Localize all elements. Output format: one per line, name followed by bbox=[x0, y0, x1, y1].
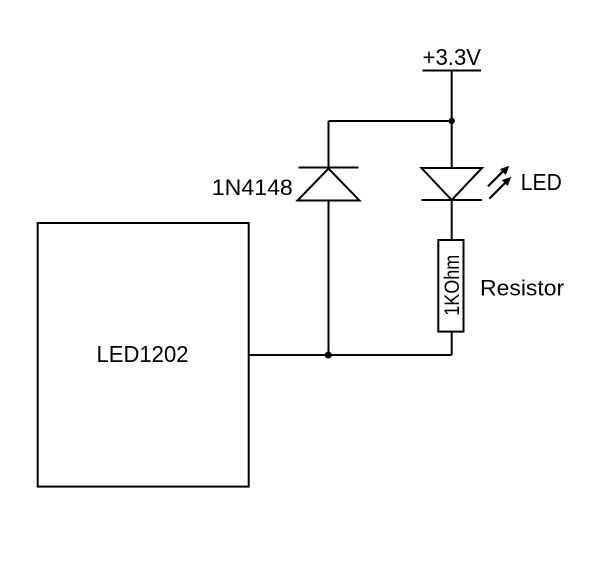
LED triangle bbox=[422, 168, 483, 200]
svg-text:LED1202: LED1202 bbox=[97, 341, 189, 367]
wire LED cathode to resistor R1 bbox=[451, 200, 453, 240]
LED light arrow upper bbox=[488, 167, 509, 187]
svg-text:+3.3V: +3.3V bbox=[423, 44, 482, 70]
wire down to diode D1 cathode bbox=[328, 121, 330, 168]
wire resistor R1 to bottom net bbox=[451, 332, 453, 355]
LED light arrow lower bbox=[489, 178, 510, 199]
power rail bar +3.3V bbox=[423, 70, 482, 72]
wire from diode anode down to bottom net bbox=[328, 201, 330, 356]
node junction dot on bottom net bbox=[325, 352, 332, 359]
LED cathode bar bbox=[422, 199, 483, 201]
wire from +3.3V rail down to LED anode bbox=[451, 71, 453, 169]
svg-text:Resistor: Resistor bbox=[480, 275, 564, 300]
svg-text:LED: LED bbox=[521, 169, 562, 195]
IC LED1202 box bbox=[38, 223, 249, 487]
diode 1N4148 cathode bar bbox=[299, 167, 359, 169]
resistor R1 body bbox=[438, 240, 463, 332]
diode 1N4148 triangle bbox=[298, 169, 360, 201]
bottom net wire from LED1202 to resistor branch bbox=[249, 354, 452, 356]
svg-text:1N4148: 1N4148 bbox=[212, 175, 293, 200]
svg-text:1KOhm: 1KOhm bbox=[440, 255, 464, 316]
node junction dot on +3.3V branch bbox=[449, 118, 455, 124]
wire from junction left to diode branch bbox=[329, 120, 452, 122]
